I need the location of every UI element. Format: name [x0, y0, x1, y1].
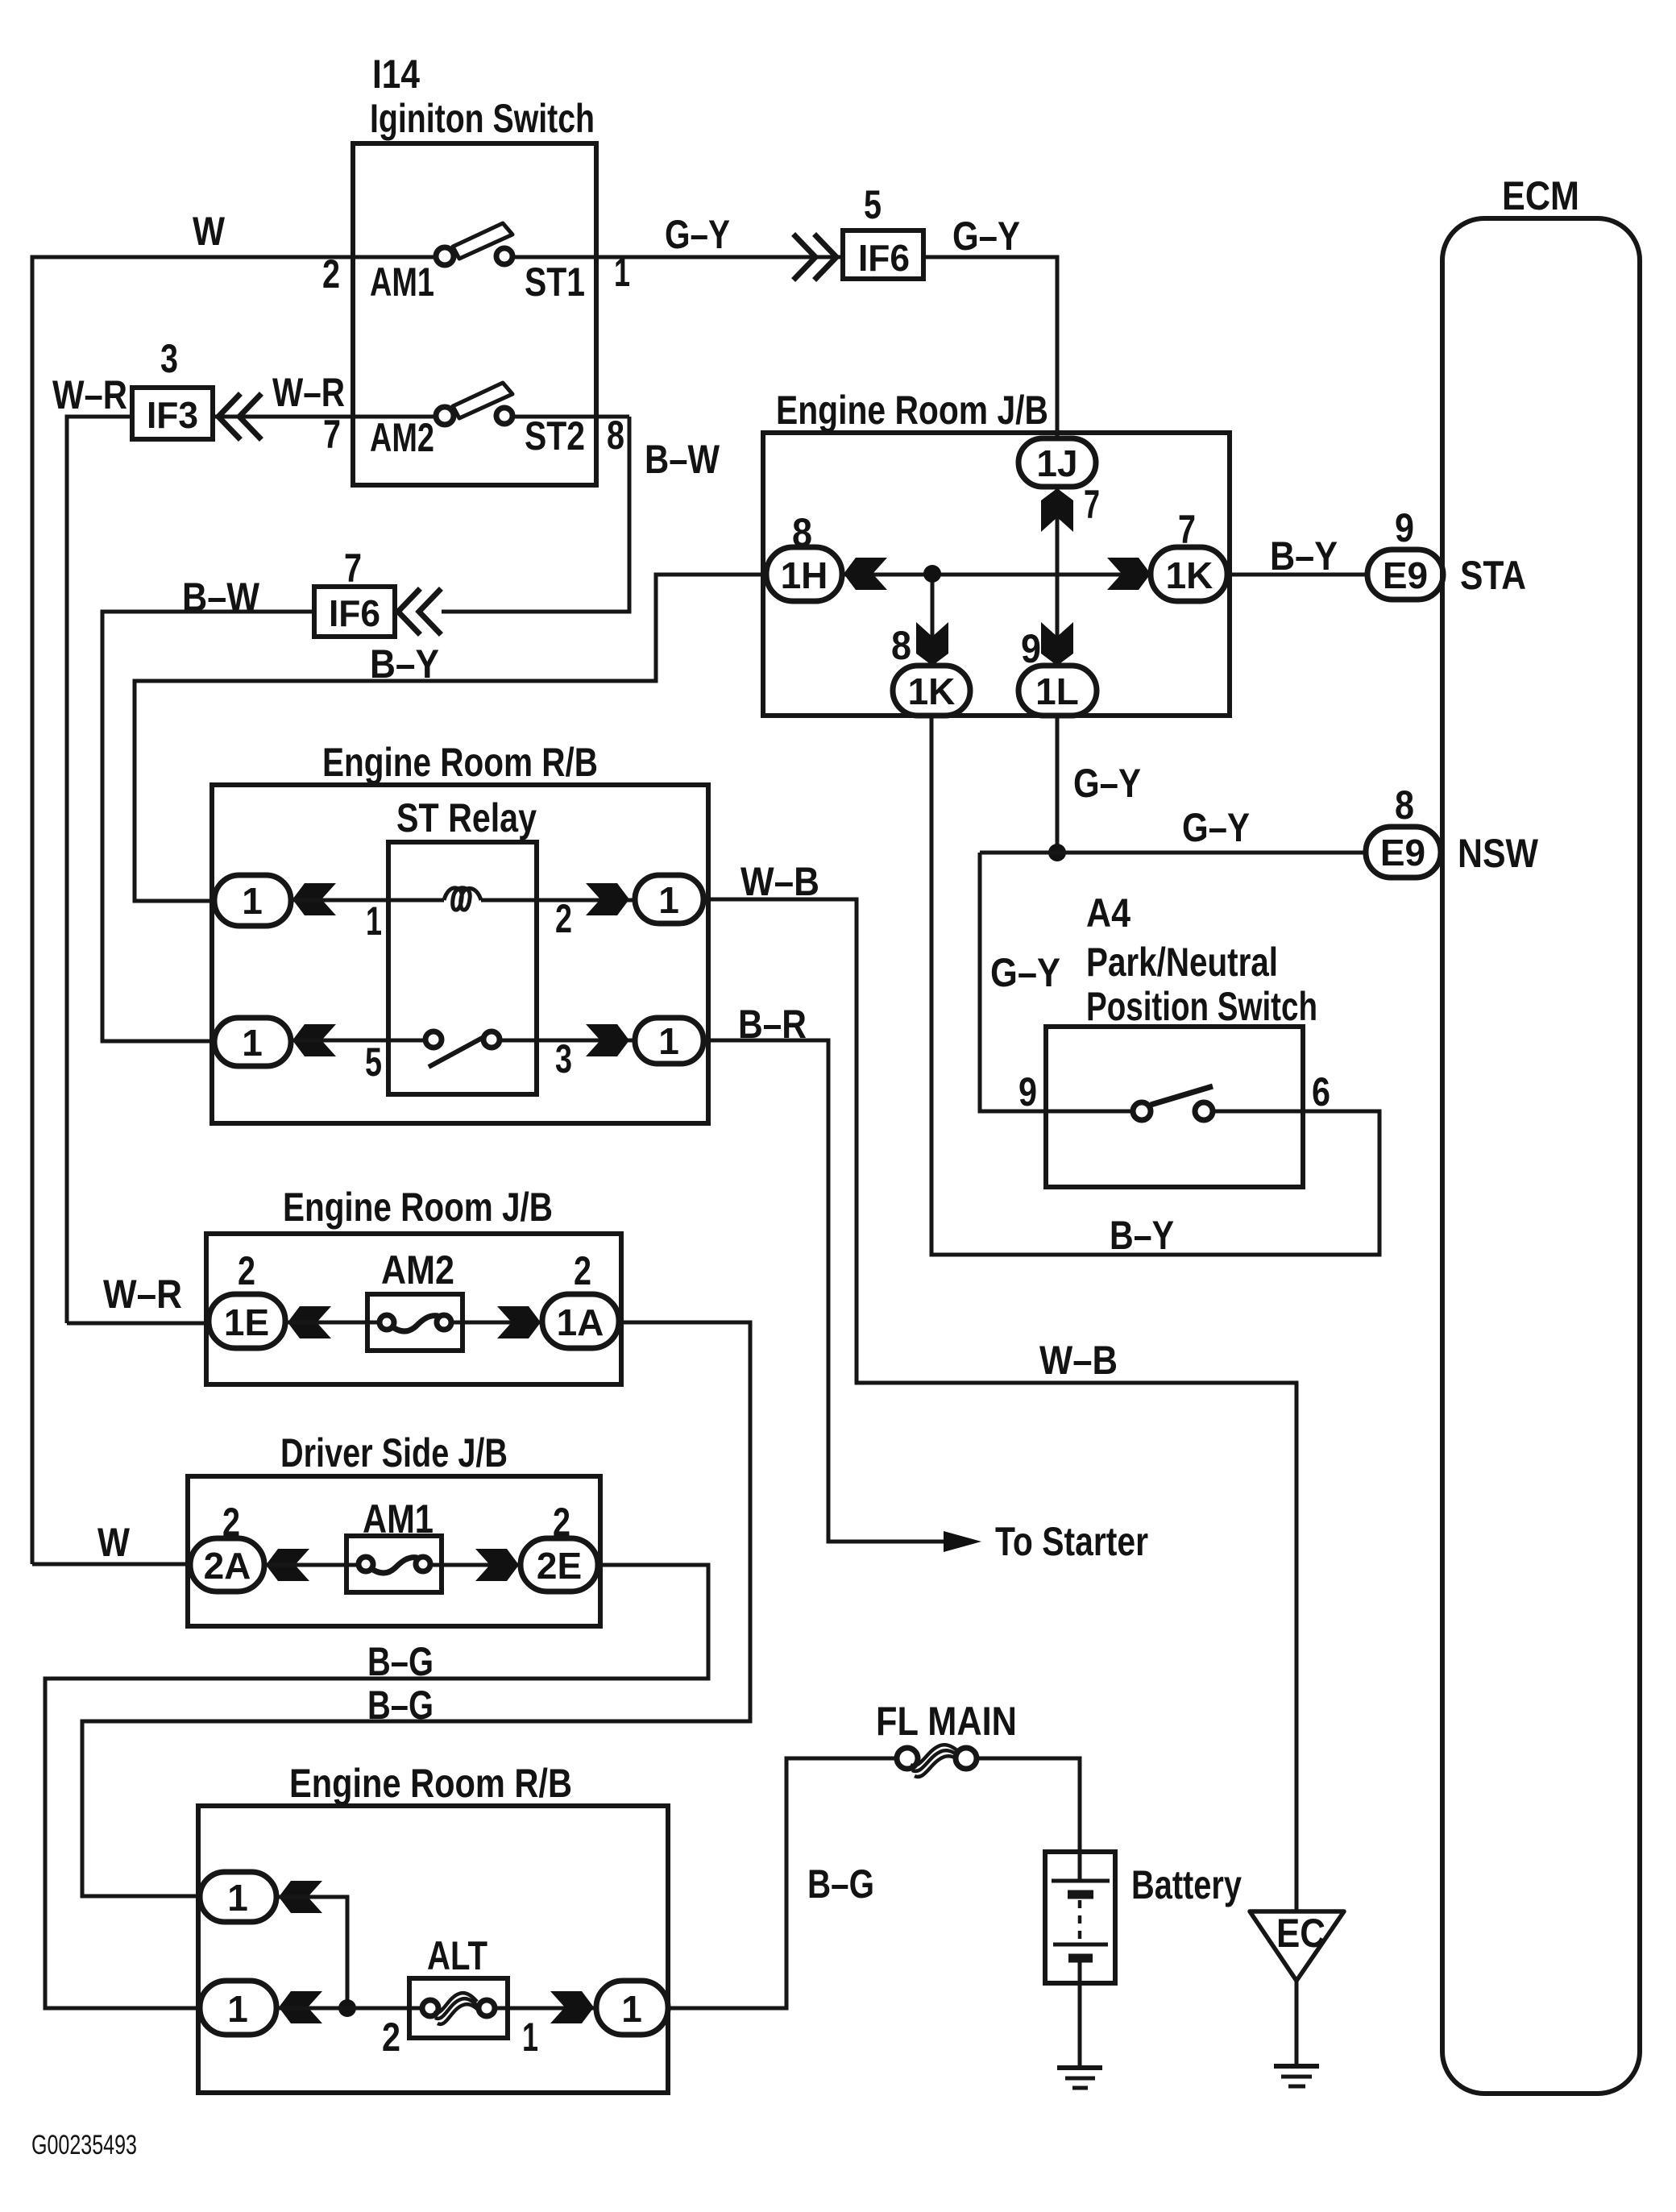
svg-text:A4: A4: [1086, 890, 1130, 936]
svg-text:AM2: AM2: [381, 1247, 454, 1293]
wire battery to ground: [1078, 1958, 1082, 2067]
svg-text:Battery: Battery: [1131, 1862, 1242, 1907]
wire G-Y from ST1 to IF6: [596, 255, 843, 259]
arrow left into 1H: [844, 558, 887, 590]
svg-text:3: 3: [160, 336, 178, 381]
svg-text:Position Switch: Position Switch: [1086, 984, 1317, 1029]
node junction dot at ALT row: [338, 1999, 356, 2017]
svg-text:G–Y: G–Y: [1182, 805, 1250, 850]
wire upper connector to branch: [276, 1897, 347, 2008]
battery plate negative bottom: [1068, 1954, 1093, 1963]
wire to left contact: [1046, 1110, 1133, 1114]
svg-text:2A: 2A: [204, 1545, 251, 1587]
svg-text:1J: 1J: [1036, 442, 1077, 484]
svg-text:AM1: AM1: [370, 259, 434, 305]
wire W from left margin to AM1: [32, 257, 353, 1564]
arrow right into 1A: [497, 1306, 541, 1338]
fuse ALT fusible link: [409, 1978, 508, 2038]
Engine Room R/B bottom box: [198, 1806, 668, 2093]
svg-text:ST Relay: ST Relay: [396, 795, 537, 840]
wire B-G up to FL MAIN: [668, 1758, 897, 2008]
fuse AM1: [346, 1536, 442, 1592]
arrow right into right connector: [550, 1991, 594, 2023]
svg-text:W–R: W–R: [272, 370, 345, 415]
svg-text:7: 7: [344, 546, 362, 591]
svg-text:IF3: IF3: [147, 394, 198, 436]
wire W-R into 1E: [67, 1322, 210, 1326]
SECTION: fuse blocks: [32, 1185, 750, 2008]
svg-text:2: 2: [382, 2015, 400, 2060]
SECTION: ignition switch: [32, 52, 1057, 1564]
svg-text:1H: 1H: [781, 554, 828, 596]
svg-text:1: 1: [227, 1877, 248, 1919]
svg-text:B–W: B–W: [645, 437, 720, 482]
svg-text:6: 6: [1312, 1069, 1330, 1114]
svg-text:B–Y: B–Y: [1110, 1213, 1174, 1258]
arrow right into right connector: [586, 883, 629, 915]
wire coil to pin 2: [481, 898, 638, 903]
svg-text:B–G: B–G: [807, 1861, 874, 1907]
connector E9 STA: [1367, 550, 1443, 600]
battery cell dashed link: [1078, 1900, 1082, 1942]
svg-text:1A: 1A: [557, 1301, 604, 1343]
svg-text:1E: 1E: [224, 1301, 269, 1343]
SECTION: battery and grounds: [31, 1699, 1344, 2160]
svg-text:7: 7: [323, 412, 341, 457]
wire ST2 to pin 8: [512, 415, 629, 419]
relay contact right: [483, 1031, 500, 1048]
svg-text:G–Y: G–Y: [1073, 761, 1141, 806]
wire G-Y bus to E9 NSW: [980, 851, 1366, 855]
svg-text:Park/Neutral: Park/Neutral: [1086, 940, 1278, 985]
svg-text:9: 9: [1395, 505, 1414, 550]
arrow right into switch-right connector: [586, 1024, 629, 1056]
Engine Room R/B box: [212, 785, 708, 1123]
connector 1 switch left: [214, 1018, 291, 1066]
arrow left into 1E: [288, 1306, 331, 1338]
Driver Side J/B box: [188, 1476, 600, 1626]
ground battery: [1057, 2065, 1102, 2070]
wire G-Y from IF6 down to 1J: [923, 257, 1057, 442]
arrow left into upper connector: [279, 1881, 322, 1913]
svg-text:Driver Side J/B: Driver Side J/B: [280, 1430, 508, 1475]
connector E9 NSW: [1366, 827, 1441, 878]
arrow to starter: [944, 1531, 981, 1552]
connector 1 upper: [200, 1872, 276, 1922]
svg-text:1: 1: [658, 1020, 679, 1062]
Engine Room J/B second box: [206, 1234, 621, 1384]
park/neutral position switch A4 box: [1046, 1027, 1303, 1187]
connector 1L: [1018, 666, 1097, 716]
svg-text:IF6: IF6: [858, 237, 910, 279]
svg-text:W: W: [97, 1520, 131, 1565]
wire B-Y from 1H to relay pin1 row: [135, 575, 765, 901]
svg-text:8: 8: [607, 413, 624, 458]
SECTION: relay block: [212, 740, 1296, 1913]
svg-text:5: 5: [864, 182, 882, 227]
wire W-R chevrons to AM2: [213, 415, 436, 419]
ST relay box: [388, 842, 537, 1094]
svg-text:STA: STA: [1460, 553, 1526, 598]
svg-text:Engine Room J/B: Engine Room J/B: [776, 388, 1048, 433]
wire FL MAIN to battery: [977, 1758, 1080, 1881]
arrow right into 2E: [475, 1549, 519, 1581]
svg-text:IF6: IF6: [329, 592, 380, 634]
wire W into 2A: [32, 1563, 192, 1567]
node junction dot: [923, 565, 941, 583]
connector IF3: [132, 388, 213, 439]
wire switch row right: [500, 1039, 638, 1043]
svg-text:NSW: NSW: [1458, 831, 1539, 876]
battery plate negative top: [1068, 1890, 1093, 1899]
svg-text:1: 1: [621, 1988, 642, 2030]
wire B-Y from 1K to E9 STA: [1227, 573, 1367, 577]
svg-text:FL MAIN: FL MAIN: [876, 1699, 1017, 1744]
ignition switch I14 box: [353, 143, 596, 485]
svg-text:1L: 1L: [1035, 670, 1079, 712]
connector 1H: [766, 547, 842, 601]
svg-text:B–G: B–G: [367, 1639, 434, 1684]
connector 2A: [190, 1538, 264, 1592]
wire B-W from IF6 to relay pin5 row: [102, 612, 314, 1041]
arrow up into 1J: [1041, 488, 1073, 532]
wire G-Y from 1L down to G-Y bus: [1056, 716, 1060, 853]
connector 1E: [209, 1294, 285, 1348]
svg-text:G–Y: G–Y: [990, 950, 1060, 995]
svg-text:ST2: ST2: [525, 413, 585, 459]
svg-text:ALT: ALT: [427, 1933, 487, 1978]
connector 1 coil right: [635, 875, 703, 923]
svg-text:W–B: W–B: [1039, 1338, 1118, 1383]
svg-text:2: 2: [555, 896, 572, 941]
relay coil: [444, 888, 481, 910]
arrow left into lower connector: [279, 1991, 322, 2023]
Engine Room J/B box: [763, 433, 1230, 716]
svg-text:1: 1: [522, 2015, 538, 2060]
svg-text:B–G: B–G: [367, 1683, 434, 1728]
arrow down into 1K lower: [916, 622, 948, 666]
connector 1 right: [596, 1981, 668, 2035]
battery plate positive top: [1052, 1879, 1110, 1883]
wire fuse to 1A: [451, 1321, 546, 1325]
wire 1J to 1L vertical: [1056, 487, 1060, 666]
svg-text:8: 8: [891, 623, 911, 668]
connector 1J: [1018, 438, 1096, 487]
svg-text:ECM: ECM: [1502, 173, 1579, 218]
fusible link FL MAIN: [897, 1748, 918, 1769]
svg-text:G–Y: G–Y: [952, 214, 1020, 259]
connector 2E: [521, 1538, 598, 1592]
svg-text:E9: E9: [1380, 832, 1425, 874]
wire W-R from IF3 down to 1E: [67, 417, 132, 1323]
svg-text:2: 2: [238, 1248, 255, 1293]
contact ST2: [496, 408, 512, 424]
svg-text:G–Y: G–Y: [665, 212, 730, 257]
svg-text:E9: E9: [1383, 554, 1428, 596]
svg-text:9: 9: [1018, 1069, 1037, 1114]
wire AM1 contact lead: [353, 255, 436, 259]
wire B-R from relay to starter: [703, 1040, 947, 1542]
wire W-B from relay to EC drop: [703, 899, 1296, 1913]
svg-text:3: 3: [555, 1036, 572, 1081]
connector 1 switch right: [635, 1018, 703, 1064]
battery box: [1045, 1852, 1115, 1983]
arrow left into switch-left connector: [292, 1024, 336, 1056]
SECTION: bottom block: [198, 1758, 897, 2093]
relay switch lever: [429, 1035, 487, 1067]
svg-text:To Starter: To Starter: [995, 1519, 1148, 1564]
svg-text:W–R: W–R: [52, 372, 127, 417]
svg-text:1: 1: [242, 880, 263, 922]
svg-text:AM2: AM2: [370, 415, 434, 460]
arrow right into 1K: [1107, 558, 1151, 590]
wire switch row left: [291, 1039, 425, 1043]
svg-text:1: 1: [366, 898, 382, 944]
svg-text:B–Y: B–Y: [1270, 533, 1338, 579]
switch lever: [1151, 1086, 1213, 1105]
wire branch down to 1K lower: [931, 575, 935, 666]
svg-text:ST1: ST1: [525, 259, 585, 305]
svg-text:Iginiton Switch: Iginiton Switch: [370, 96, 595, 141]
wire from 1K lower down and across to pin 6 loop: [931, 716, 1379, 1255]
switch lever AM1: [453, 223, 512, 259]
wire ALT to right connector: [495, 2007, 599, 2011]
svg-text:1: 1: [242, 1022, 263, 1064]
ground EC: [1274, 2064, 1319, 2069]
svg-text:7: 7: [1084, 482, 1100, 527]
connector 1 lower: [200, 1981, 276, 2035]
contact AM1: [436, 247, 454, 265]
chevrons into IF3: [218, 396, 239, 438]
svg-text:G00235493: G00235493: [31, 2130, 137, 2160]
connector IF6 top: [843, 230, 923, 279]
svg-text:EC: EC: [1276, 1911, 1325, 1956]
contact AM2: [436, 407, 454, 425]
svg-text:2: 2: [322, 251, 340, 297]
svg-text:Engine Room J/B: Engine Room J/B: [283, 1185, 553, 1230]
wire from right contact to pin 6: [1213, 1110, 1303, 1114]
svg-text:5: 5: [365, 1040, 382, 1085]
wire bus 1H to 1K: [842, 573, 1151, 577]
wire fuse to 2E: [430, 1563, 524, 1567]
contact left: [1133, 1102, 1151, 1120]
svg-text:1K: 1K: [908, 670, 956, 712]
SECTION: top junction block: [763, 388, 1539, 1258]
connector 1 coil left: [214, 875, 291, 926]
ECM box: [1442, 218, 1640, 2094]
chevrons into IF6: [795, 236, 815, 278]
wire G-Y down to PNP pin 9: [980, 853, 1046, 1111]
svg-text:Engine Room R/B: Engine Room R/B: [289, 1761, 572, 1806]
svg-text:1: 1: [227, 1988, 248, 2030]
wire 2A to fuse AM1: [264, 1563, 358, 1567]
wire B-W down from ST2: [442, 417, 629, 612]
battery plate positive bottom: [1053, 1943, 1108, 1947]
connector 1K right: [1151, 547, 1227, 601]
wire ST1 to pin 1: [512, 255, 596, 259]
wire 1E to fuse AM2: [285, 1321, 379, 1325]
node junction dot on G-Y bus: [1048, 844, 1066, 861]
svg-text:8: 8: [1395, 782, 1414, 828]
wire from 2E down to B-G bus 1: [45, 1565, 708, 2008]
connector 1A: [542, 1294, 619, 1348]
arrow left into 2A: [266, 1549, 309, 1581]
arrow down into 1L: [1041, 622, 1073, 666]
svg-text:W: W: [193, 209, 226, 254]
svg-text:2E: 2E: [537, 1545, 582, 1587]
SECTION: ECM: [1442, 173, 1640, 2094]
svg-text:2: 2: [574, 1248, 591, 1293]
relay contact left: [425, 1031, 442, 1048]
wire ALT row: [276, 2007, 422, 2011]
fuse AM2: [367, 1294, 463, 1351]
connector 1K lower: [893, 666, 970, 716]
ground EC triangle: [1250, 1911, 1344, 1981]
svg-text:W–R: W–R: [103, 1272, 182, 1317]
contact right: [1195, 1102, 1213, 1120]
svg-text:1: 1: [658, 879, 679, 921]
wire coil row: [291, 898, 444, 903]
connector IF6 second: [314, 587, 395, 637]
svg-text:Engine Room R/B: Engine Room R/B: [322, 740, 598, 785]
chevrons into IF6 second: [398, 591, 418, 633]
wire EC to ground: [1295, 1981, 1299, 2065]
svg-text:I14: I14: [372, 52, 420, 97]
svg-text:1K: 1K: [1166, 554, 1213, 596]
SECTION: park neutral switch: [1018, 890, 1330, 1187]
arrow left into coil-left connector: [292, 883, 336, 915]
contact ST1: [496, 248, 512, 264]
wire from 1A down to B-G bus 2: [82, 1322, 750, 1896]
switch lever AM2: [453, 383, 512, 418]
